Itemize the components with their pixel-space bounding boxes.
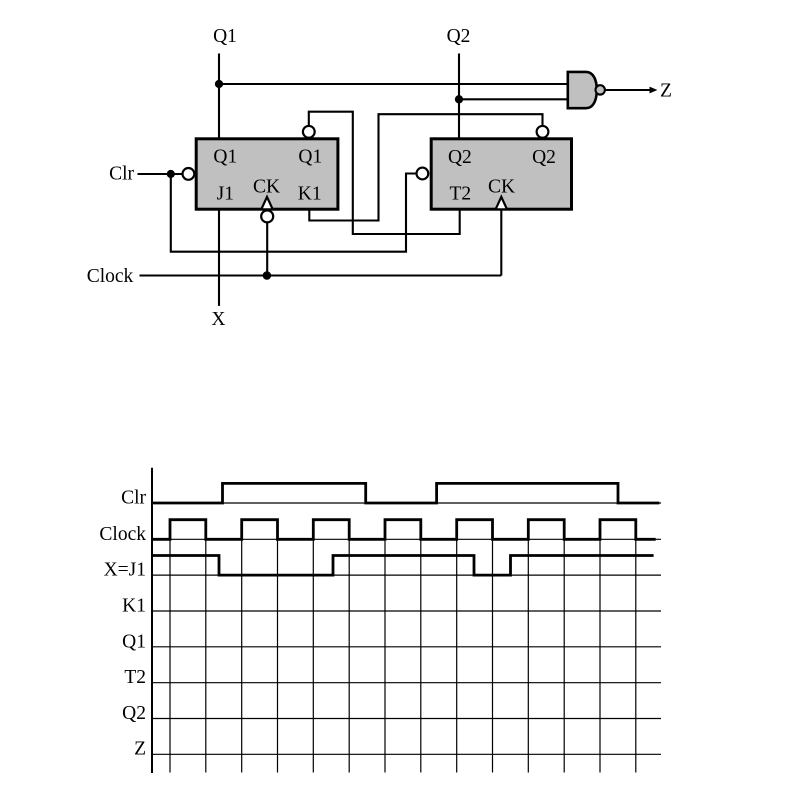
svg-text:Clr: Clr — [121, 487, 146, 508]
svg-text:T2: T2 — [449, 184, 471, 205]
svg-text:Q2: Q2 — [447, 26, 471, 47]
svg-text:Q2: Q2 — [122, 703, 146, 724]
svg-text:Clock: Clock — [87, 266, 134, 287]
svg-text:CK: CK — [488, 176, 515, 197]
svg-text:Q1: Q1 — [213, 147, 237, 168]
svg-text:Q2: Q2 — [532, 147, 556, 168]
svg-text:Z: Z — [660, 81, 672, 102]
svg-text:T2: T2 — [124, 667, 146, 688]
svg-text:Z: Z — [134, 739, 146, 760]
svg-text:Clr: Clr — [109, 164, 134, 185]
svg-text:Q1: Q1 — [298, 147, 322, 168]
svg-text:Q1: Q1 — [213, 26, 237, 47]
svg-text:Clock: Clock — [99, 524, 146, 545]
svg-text:X=J1: X=J1 — [104, 560, 146, 581]
svg-text:Q1: Q1 — [122, 631, 146, 652]
svg-text:K1: K1 — [122, 596, 146, 617]
svg-text:K1: K1 — [298, 184, 322, 205]
svg-text:X: X — [211, 309, 225, 330]
svg-text:Q2: Q2 — [448, 147, 472, 168]
svg-text:J1: J1 — [217, 184, 234, 205]
svg-text:CK: CK — [253, 176, 280, 197]
